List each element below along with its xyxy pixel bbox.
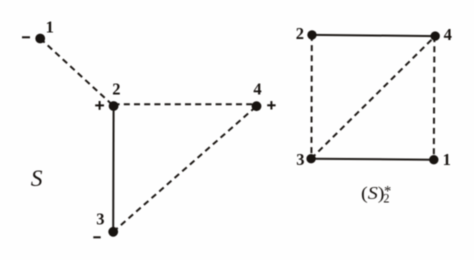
svg-text:1: 1 xyxy=(46,18,54,37)
svg-text:2: 2 xyxy=(112,80,120,99)
svg-text:3: 3 xyxy=(96,210,104,229)
svg-text:3: 3 xyxy=(296,150,304,169)
svg-text:*: * xyxy=(384,184,391,200)
svg-text:2: 2 xyxy=(296,24,304,43)
svg-text:S: S xyxy=(31,166,43,192)
svg-text:(S): (S) xyxy=(361,183,385,203)
svg-text:4: 4 xyxy=(444,25,452,44)
svg-text:4: 4 xyxy=(253,80,261,99)
svg-text:1: 1 xyxy=(443,150,451,169)
